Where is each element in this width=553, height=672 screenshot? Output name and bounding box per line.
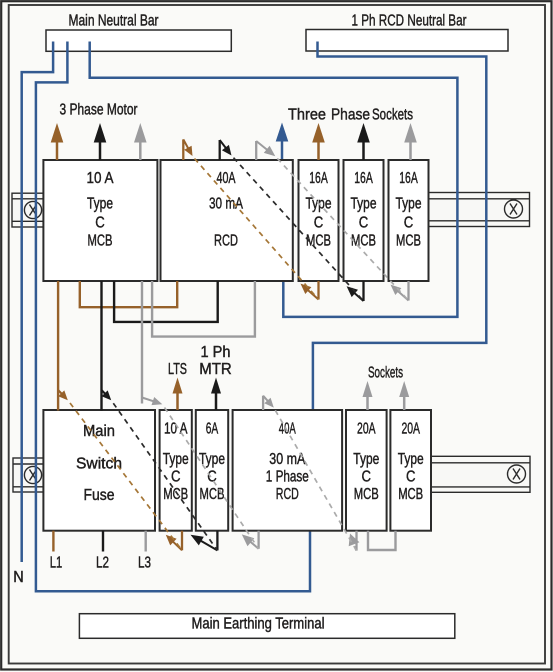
box: 16A MCB #2 [344,160,384,281]
breaker arrow: 1ph RCD top grey [263,396,274,410]
svg-text:RCD: RCD [276,486,299,503]
svg-text:20A: 20A [401,421,420,438]
svg-text:MTR: MTR [199,361,232,378]
arrow: 3 phase motor L1 [51,123,64,160]
box: 16A MCB #3 [389,160,429,281]
svg-text:MCB: MCB [351,233,376,250]
svg-text:C: C [406,469,416,486]
svg-text:20A: 20A [357,421,376,438]
svg-text:LTS: LTS [168,361,187,378]
breaker arrow: under 10A row2 brown [166,531,182,551]
svg-text:30 mA: 30 mA [209,196,243,213]
wire: L3 tail below main switch [144,531,146,552]
wire: black link MCB to RCD [114,281,218,322]
svg-text:Type: Type [163,451,189,468]
wire: neutral blue stub1 to N riser [22,42,487,592]
dashed linkage: RCD pole L1 to 16A#1 [70,158,409,551]
box: 40A 30mA RCD row1 [161,160,293,281]
breaker arrow: RCD top pole L3 [256,141,275,160]
svg-text:6A: 6A [206,421,219,438]
svg-text:Sockets: Sockets [368,365,403,382]
1 Ph RCD Neutral Bar box [306,30,508,52]
svg-text:1 Phase: 1 Phase [266,469,309,486]
svg-text:10 A: 10 A [87,170,114,187]
wire: L1 tail below main switch [52,531,54,552]
DIN rail right row2 [431,456,530,492]
svg-text:Sockets: Sockets [372,107,413,124]
svg-text:L1: L1 [50,555,63,572]
svg-text:Type: Type [353,451,379,468]
box: 40A 30mA 1 Phase RCD row2 [233,410,343,531]
svg-text:C: C [171,469,181,486]
svg-text:40A: 40A [217,170,236,187]
arrow: three phase sockets L2 [357,123,370,160]
breaker arrow: under 20A#1 grey [349,531,360,551]
wire: brown link MCB to RCD [80,281,177,307]
arrow: blue neutral up from RCD [276,123,289,160]
svg-text:MCB: MCB [354,486,379,503]
svg-text:N: N [13,569,24,586]
arrow: 3 phase motor L2 [94,123,107,160]
arrow: three phase sockets L1 [312,123,325,160]
breaker arrow: under 16A#1 brown [301,281,319,300]
svg-text:C: C [95,215,105,232]
dashed linkage: 1ph RCD to 20A#1 [275,410,356,550]
arrow: sockets grey up #1 [363,381,373,410]
svg-text:40A: 40A [279,421,296,438]
box: 20A Type C MCB #2 [390,410,431,531]
box: 6A Type C MCB row2 [196,410,228,531]
wire: neutral blue stub2 to riser B to 1ph RCD bottom [36,42,310,592]
box: Main Earthing Terminal [79,614,454,639]
arrow: LTS brown up [173,378,183,411]
wire: 1ph RCD neutral bar to RCD top [313,42,486,410]
dashed linkage: RCD pole L3 to 16A#3 [277,158,408,300]
svg-text:C: C [404,215,414,232]
DIN rail left row2 [13,458,43,492]
wire: L2 tail below main switch [102,531,104,552]
svg-text:Phase: Phase [331,107,370,124]
svg-text:C: C [359,215,369,232]
wire: grey link MCB to RCD [152,281,255,337]
DIN rail right row1 [429,193,530,227]
svg-text:MCB: MCB [88,233,113,250]
svg-text:16A: 16A [309,170,328,187]
breaker arrow: RCD top pole L1 [183,139,192,160]
svg-text:1 Ph: 1 Ph [201,344,231,361]
box: Main Switch Fuse [43,410,155,531]
svg-text:L3: L3 [138,555,151,572]
svg-text:Main: Main [83,423,115,440]
wire: grey jumper between 20A MCBs [368,531,396,550]
svg-text:Main Earthing Terminal: Main Earthing Terminal [192,616,325,633]
svg-text:Type: Type [396,196,422,213]
dashed linkage: 10A row2 grey to 1ph RCD [165,408,259,549]
arrow: 1 Ph MTR black up [211,378,221,411]
svg-text:1 Ph RCD Neutral Bar: 1 Ph RCD Neutral Bar [352,13,467,30]
dashed linkage: main switch L1 to 10A row2 [70,403,182,550]
svg-text:MCB: MCB [398,486,423,503]
wire: L1 brown feed through [53,281,177,552]
breaker arrow: main switch top L2 [102,390,112,400]
wire: L3 grey feed through [142,281,396,552]
svg-text:3 Phase Motor: 3 Phase Motor [60,102,138,119]
box: 10 A Type C MCB row2 [160,410,192,531]
breaker arrow: under 6A row2 black [191,531,218,551]
wire: neutral blue stub3 across top to RCD bottom [90,42,458,317]
breaker arrow: under 1ph RCD grey [242,531,259,549]
svg-text:RCD: RCD [214,233,238,250]
svg-text:Three: Three [288,107,326,124]
box: 16A MCB #1 [299,160,339,281]
breaker arrow: under 16A#3 grey [391,281,409,301]
svg-text:10 A: 10 A [164,421,188,438]
svg-text:MCB: MCB [163,486,188,503]
box: 20A Type C MCB #1 [346,410,387,531]
svg-text:L2: L2 [96,555,109,572]
Main Neutral Bar box [46,30,231,51]
svg-text:16A: 16A [399,170,418,187]
svg-text:Main Neutral Bar: Main Neutral Bar [69,13,160,30]
svg-text:Type: Type [87,196,113,213]
breaker arrow: 10A MCB row2 top L3 [142,397,162,405]
arrow: three phase sockets L3 [404,123,417,160]
svg-text:16A: 16A [354,170,373,187]
wire: L2 black feed through [102,281,218,552]
svg-text:Type: Type [398,451,424,468]
dashed linkage: RCD pole L2 to 16A#2 [234,158,364,301]
arrow: sockets grey up #2 [399,381,409,410]
svg-text:Fuse: Fuse [84,487,115,504]
breaker arrow: under 16A#2 black [347,281,364,301]
breaker arrow: main switch top L1 [58,390,68,400]
svg-text:Type: Type [351,196,377,213]
breaker arrow: RCD top pole L2 [220,140,232,160]
DIN rail left row1 [12,193,43,227]
box: 10 A Type C MCB row1 [43,160,157,281]
dashed linkage: main switch L2 to 6A row2 [113,403,217,550]
svg-text:C: C [314,215,324,232]
svg-text:C: C [362,469,372,486]
svg-text:Switch: Switch [76,456,122,473]
svg-text:MCB: MCB [200,486,225,503]
arrow: 3 phase motor L3 [134,123,147,160]
svg-text:MCB: MCB [396,233,421,250]
